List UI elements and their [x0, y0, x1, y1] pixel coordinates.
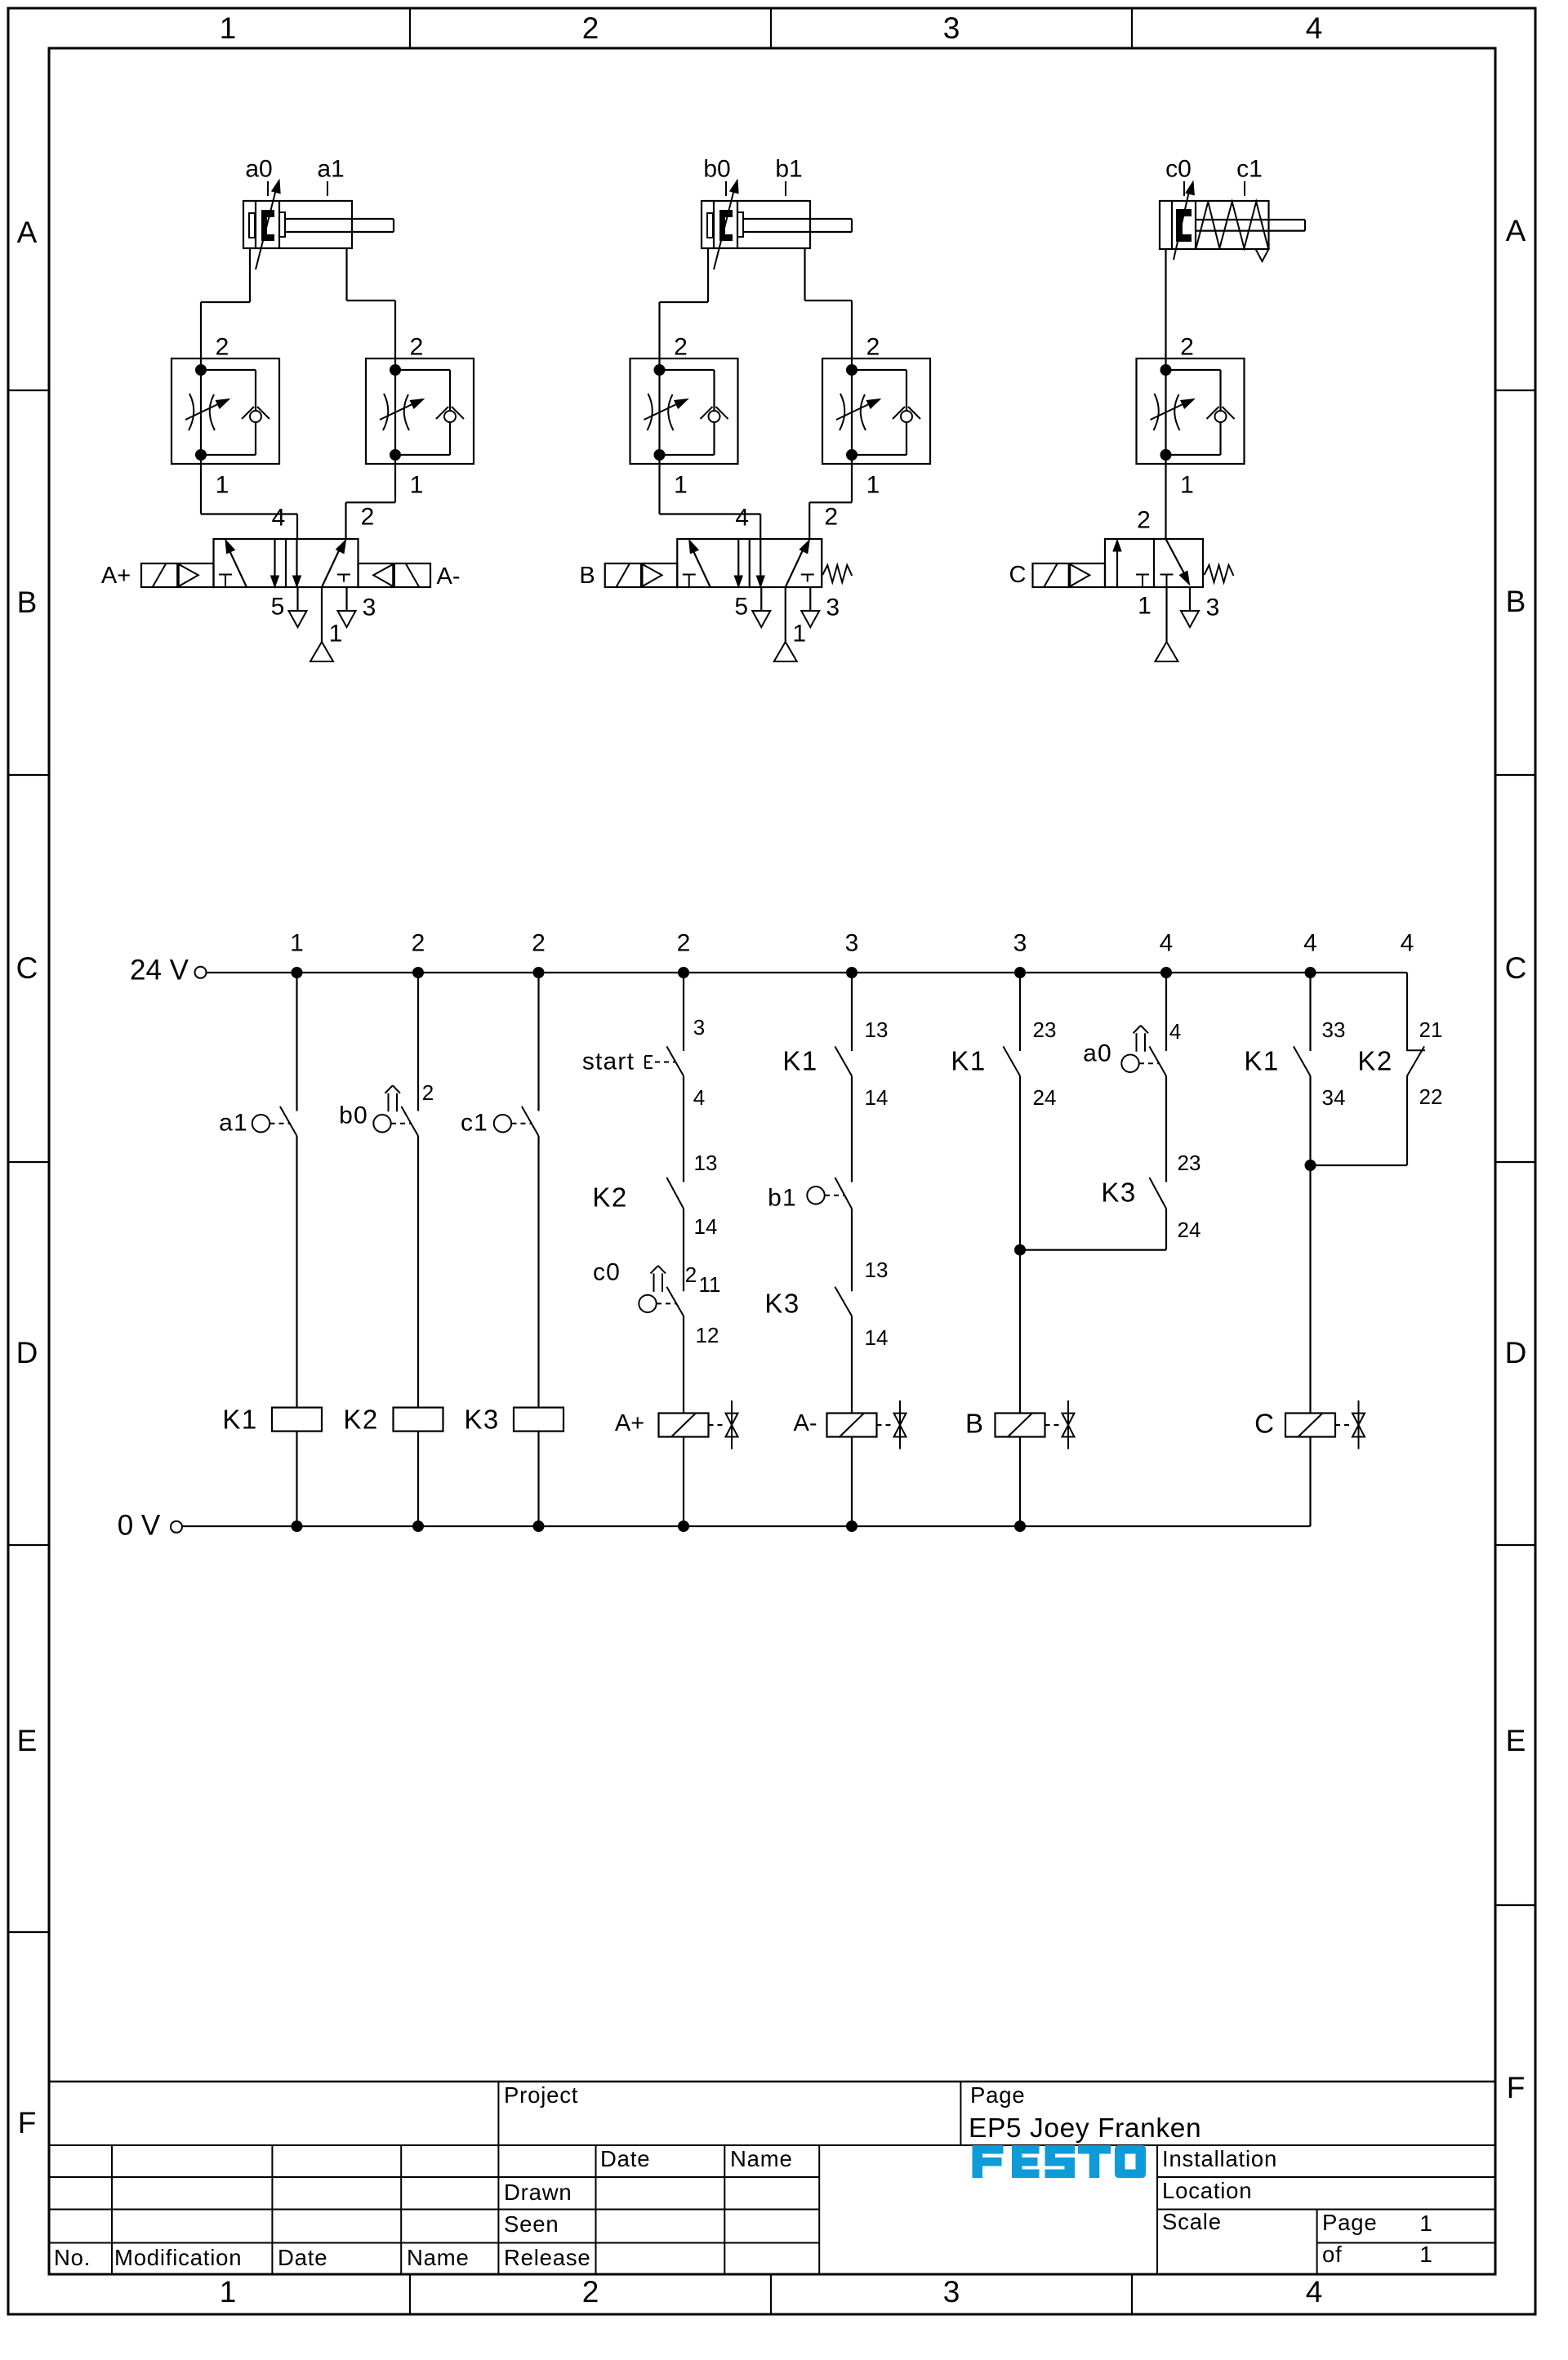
svg-text:A: A: [17, 216, 38, 249]
svg-text:b0: b0: [703, 156, 730, 183]
svg-text:K1: K1: [782, 1046, 817, 1076]
svg-text:1: 1: [410, 472, 424, 499]
svg-text:A+: A+: [101, 563, 131, 589]
svg-text:2: 2: [582, 2275, 599, 2309]
svg-text:3: 3: [1013, 930, 1027, 957]
svg-text:Drawn: Drawn: [504, 2180, 572, 2205]
svg-text:2: 2: [422, 1080, 434, 1105]
svg-text:C: C: [1009, 562, 1027, 588]
svg-text:EP5 Joey Franken: EP5 Joey Franken: [969, 2113, 1201, 2144]
svg-text:K2: K2: [1357, 1046, 1392, 1076]
svg-text:13: 13: [865, 1017, 889, 1042]
svg-text:start: start: [582, 1049, 635, 1075]
svg-text:A+: A+: [615, 1410, 644, 1436]
svg-text:1: 1: [220, 2275, 237, 2309]
svg-text:K3: K3: [1101, 1178, 1136, 1208]
svg-text:E: E: [1506, 1724, 1526, 1757]
svg-text:24 V: 24 V: [130, 954, 189, 986]
svg-text:4: 4: [1169, 1019, 1181, 1044]
svg-text:C: C: [1505, 951, 1527, 985]
svg-text:4: 4: [693, 1085, 705, 1110]
svg-text:K1: K1: [951, 1046, 986, 1076]
svg-text:1: 1: [216, 472, 229, 499]
svg-text:Project: Project: [504, 2082, 578, 2108]
svg-text:c1: c1: [461, 1110, 488, 1137]
svg-text:Modification: Modification: [114, 2245, 242, 2270]
svg-text:21: 21: [1419, 1017, 1443, 1042]
svg-text:4: 4: [272, 505, 286, 532]
svg-text:a1: a1: [219, 1110, 248, 1137]
svg-text:4: 4: [1303, 930, 1317, 957]
svg-text:3: 3: [693, 1015, 705, 1040]
svg-text:1: 1: [1138, 593, 1151, 620]
svg-text:A-: A-: [437, 563, 461, 590]
svg-text:5: 5: [734, 594, 748, 621]
svg-text:Location: Location: [1162, 2178, 1252, 2203]
svg-text:K3: K3: [464, 1405, 499, 1435]
svg-text:34: 34: [1322, 1085, 1346, 1110]
svg-text:1: 1: [792, 621, 806, 648]
svg-text:c1: c1: [1236, 156, 1263, 183]
svg-text:b1: b1: [775, 156, 802, 183]
svg-text:2: 2: [216, 334, 229, 361]
svg-text:1: 1: [866, 472, 880, 499]
svg-text:Date: Date: [600, 2146, 650, 2171]
svg-text:K3: K3: [764, 1289, 800, 1319]
svg-text:14: 14: [694, 1214, 718, 1239]
svg-text:Installation: Installation: [1162, 2146, 1277, 2171]
svg-text:0 V: 0 V: [118, 1509, 161, 1541]
svg-text:c0: c0: [593, 1259, 621, 1286]
svg-text:2: 2: [685, 1262, 697, 1287]
svg-text:K2: K2: [343, 1405, 378, 1435]
svg-text:D: D: [1505, 1336, 1527, 1369]
svg-text:Date: Date: [278, 2245, 327, 2270]
svg-text:1: 1: [1419, 2242, 1432, 2267]
svg-text:No.: No.: [54, 2245, 91, 2270]
svg-text:Release: Release: [504, 2245, 591, 2270]
svg-text:b0: b0: [339, 1102, 368, 1129]
svg-text:Name: Name: [407, 2245, 470, 2270]
svg-text:4: 4: [1160, 930, 1174, 957]
svg-text:13: 13: [865, 1258, 889, 1282]
svg-text:33: 33: [1322, 1017, 1346, 1042]
svg-text:Seen: Seen: [504, 2211, 559, 2237]
svg-text:Page: Page: [970, 2082, 1025, 2108]
svg-text:2: 2: [1180, 334, 1194, 361]
svg-text:1: 1: [1180, 472, 1194, 499]
svg-text:F: F: [1507, 2071, 1526, 2104]
svg-text:2: 2: [410, 334, 424, 361]
svg-text:1: 1: [290, 930, 304, 957]
svg-text:3: 3: [826, 594, 840, 621]
svg-text:a1: a1: [317, 156, 344, 183]
svg-text:11: 11: [699, 1272, 721, 1297]
svg-text:4: 4: [1401, 930, 1414, 957]
svg-text:24: 24: [1178, 1218, 1201, 1242]
svg-text:A-: A-: [794, 1410, 817, 1436]
svg-text:4: 4: [1306, 11, 1323, 45]
svg-text:1: 1: [1419, 2211, 1432, 2236]
svg-text:5: 5: [271, 594, 285, 621]
svg-text:2: 2: [824, 504, 838, 531]
svg-text:B: B: [965, 1409, 983, 1439]
svg-text:3: 3: [363, 594, 376, 621]
svg-text:2: 2: [1137, 507, 1151, 534]
svg-text:C: C: [1254, 1409, 1274, 1439]
svg-text:c0: c0: [1165, 156, 1192, 183]
svg-text:Scale: Scale: [1162, 2209, 1222, 2234]
svg-text:F: F: [18, 2106, 37, 2140]
svg-text:14: 14: [865, 1085, 889, 1110]
svg-text:of: of: [1322, 2242, 1343, 2267]
svg-text:24: 24: [1033, 1085, 1057, 1110]
svg-text:2: 2: [674, 334, 688, 361]
svg-text:2: 2: [582, 11, 599, 45]
svg-text:3: 3: [1206, 594, 1220, 621]
svg-text:B: B: [17, 586, 38, 619]
svg-text:23: 23: [1033, 1017, 1057, 1042]
svg-text:13: 13: [694, 1151, 718, 1175]
svg-text:3: 3: [845, 930, 859, 957]
svg-text:14: 14: [865, 1325, 889, 1350]
svg-text:22: 22: [1419, 1084, 1443, 1109]
svg-text:4: 4: [735, 505, 749, 532]
svg-text:K1: K1: [1244, 1046, 1279, 1076]
svg-text:K2: K2: [592, 1182, 627, 1213]
svg-text:D: D: [16, 1336, 38, 1369]
svg-text:b1: b1: [768, 1185, 797, 1212]
svg-text:B: B: [579, 563, 595, 589]
svg-text:B: B: [1506, 585, 1526, 618]
svg-text:3: 3: [943, 2275, 960, 2309]
svg-text:3: 3: [943, 11, 960, 45]
svg-text:K1: K1: [222, 1405, 257, 1435]
svg-text:2: 2: [412, 930, 425, 957]
svg-text:4: 4: [1306, 2275, 1323, 2309]
svg-text:Page: Page: [1322, 2210, 1377, 2235]
svg-text:C: C: [16, 951, 38, 985]
svg-text:1: 1: [220, 11, 237, 45]
svg-text:1: 1: [329, 621, 343, 648]
svg-text:2: 2: [677, 930, 691, 957]
svg-text:2: 2: [361, 504, 375, 531]
svg-text:2: 2: [532, 930, 546, 957]
svg-text:a0: a0: [1083, 1040, 1112, 1067]
svg-text:a0: a0: [245, 156, 272, 183]
svg-text:12: 12: [696, 1323, 719, 1347]
svg-text:1: 1: [674, 472, 688, 499]
svg-text:Name: Name: [730, 2146, 793, 2171]
svg-text:E: E: [17, 1724, 38, 1757]
svg-text:A: A: [1506, 214, 1526, 247]
svg-text:23: 23: [1178, 1151, 1201, 1175]
svg-text:2: 2: [866, 334, 880, 361]
